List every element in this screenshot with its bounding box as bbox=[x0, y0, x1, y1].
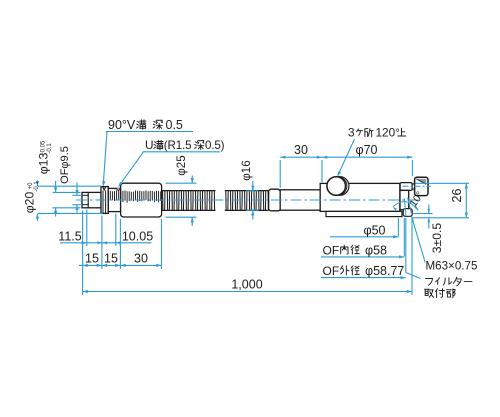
angle arc arrows bbox=[392, 206, 397, 211]
ext line sleeve right bbox=[161, 219, 163, 269]
ext line phi13 top bbox=[53, 191, 81, 193]
tube end cap bbox=[269, 189, 281, 211]
barrel under-plate bbox=[326, 211, 402, 216]
tip chamfer edge bbox=[87, 192, 89, 207]
neck section bbox=[108, 188, 120, 211]
collar inner edge bbox=[102, 191, 104, 214]
arrows phi70 bbox=[322, 156, 327, 159]
dim line row1 bbox=[60, 242, 152, 244]
leader U groove bbox=[119, 152, 144, 187]
svg-text:φ70: φ70 bbox=[355, 143, 377, 157]
leader 90V groove bbox=[103, 132, 107, 186]
label underline U groove bbox=[143, 151, 221, 153]
svg-text:φ58: φ58 bbox=[365, 243, 387, 257]
dim phi13 arrows bbox=[54, 187, 57, 192]
svg-text:OFφ9.5: OFφ9.5 bbox=[59, 146, 71, 184]
arrows 15b bbox=[102, 264, 107, 267]
filter holder top cap bbox=[400, 183, 412, 191]
dim line 26 bbox=[465, 183, 467, 218]
ext line overall right bbox=[411, 218, 413, 295]
filter mount lug bbox=[403, 209, 412, 217]
callout phi50 line bbox=[330, 236, 398, 238]
main center line bbox=[76, 199, 420, 201]
svg-text:15: 15 bbox=[85, 251, 99, 265]
dim phi16 arrows bbox=[251, 186, 254, 191]
dim line row2 bbox=[79, 264, 162, 266]
leader filter mount bbox=[406, 273, 421, 279]
arrows 30 top bbox=[280, 156, 285, 159]
ext line phi13 bottom bbox=[53, 207, 81, 209]
filter holder body bbox=[400, 190, 409, 209]
ext line barrel left bbox=[321, 160, 323, 182]
fiber core top edge (phi9.5) bbox=[82, 194, 88, 196]
svg-text:0.5: 0.5 bbox=[166, 118, 183, 132]
ext line tip left edge bbox=[82, 211, 84, 296]
left ferrule tip (phi13) bbox=[82, 192, 101, 207]
dim phi25 arrows bbox=[191, 178, 194, 183]
ext line 30 left bbox=[279, 160, 281, 188]
dim phi13 line bbox=[55, 181, 57, 192]
svg-text:1,000: 1,000 bbox=[231, 277, 262, 291]
arrows 1000 bbox=[83, 290, 88, 293]
ext line phi25 bottom bbox=[166, 216, 197, 218]
V-groove 90deg on collar bbox=[103, 187, 106, 190]
arrows 30b bbox=[120, 264, 125, 267]
leader M63 bbox=[412, 217, 426, 263]
svg-text:30: 30 bbox=[294, 143, 308, 157]
svg-text:-0.05: -0.05 bbox=[40, 140, 46, 154]
arrows 11.5 bbox=[82, 241, 87, 244]
dim line 1000 bbox=[83, 291, 412, 293]
ext line 26 bottom bbox=[412, 217, 470, 219]
ext line phi9.5 bottom bbox=[72, 204, 81, 206]
callout phi58.77 line bbox=[321, 277, 406, 279]
svg-text:φ20: φ20 bbox=[23, 192, 37, 214]
ext line phi58 bbox=[403, 218, 405, 256]
svg-text:OF: OF bbox=[323, 243, 340, 257]
svg-text:11.5: 11.5 bbox=[58, 229, 81, 243]
callout phi58 line bbox=[321, 256, 404, 258]
arrows 3 bbox=[428, 209, 431, 213]
svg-text:-0.1: -0.1 bbox=[47, 143, 53, 154]
svg-text:26: 26 bbox=[450, 189, 464, 203]
dim phi20 arrows bbox=[36, 181, 39, 186]
svg-text:M63×0.75: M63×0.75 bbox=[426, 260, 478, 273]
dim phi9.5 line bbox=[76, 183, 78, 196]
ext line phi20 top bbox=[38, 185, 101, 187]
ext line phi16 bottom bbox=[246, 209, 259, 211]
arrows 26 bbox=[465, 183, 468, 188]
svg-text:(R1.5: (R1.5 bbox=[164, 139, 192, 152]
svg-text:15: 15 bbox=[104, 251, 118, 265]
arrows 15a bbox=[83, 264, 88, 267]
svg-text:φ50: φ50 bbox=[363, 223, 385, 237]
ext line phi9.5 top bbox=[72, 194, 81, 196]
dim phi16 line bbox=[252, 181, 254, 191]
sleeve phi25 bbox=[121, 183, 162, 217]
label underline 90V bbox=[106, 131, 193, 133]
dim phi9.5 arrows bbox=[75, 190, 78, 195]
ext line sleeve left bbox=[119, 219, 121, 269]
svg-text:10.05: 10.05 bbox=[122, 229, 153, 243]
collar inner edge 2 bbox=[105, 191, 107, 214]
spring corrugation visible in sleeve window bbox=[110, 190, 160, 202]
dim phi25 line bbox=[191, 176, 193, 184]
thumbscrew axis line bbox=[403, 185, 432, 187]
svg-text:3±0.5: 3±0.5 bbox=[430, 223, 444, 254]
lamp house barrel bbox=[320, 183, 400, 211]
ext line 3 top bbox=[413, 213, 432, 215]
thumbscrew head bbox=[415, 177, 428, 195]
clamp knob front circle bbox=[327, 177, 346, 196]
ext line phi25 top bbox=[166, 182, 197, 184]
ext line phi58.77 and filter leader bbox=[405, 218, 407, 273]
leader knob 3 places bbox=[338, 139, 355, 176]
svg-text:φ58.77: φ58.77 bbox=[365, 264, 404, 278]
neck into lamp barrel bbox=[280, 190, 320, 210]
dim phi20 line bbox=[36, 180, 38, 186]
svg-text:0.5): 0.5) bbox=[205, 139, 225, 152]
svg-text:30: 30 bbox=[134, 251, 148, 265]
label mount part kanji bbox=[425, 289, 434, 297]
svg-text:φ25: φ25 bbox=[175, 155, 188, 175]
dim 3 line bbox=[428, 205, 430, 214]
svg-text:3: 3 bbox=[348, 126, 355, 140]
collar phi20 bbox=[101, 187, 108, 214]
flexible corrugated tube segment 2 (phi16) bbox=[225, 190, 269, 192]
thumbscrew shading bbox=[416, 179, 426, 184]
ext line phi50 bbox=[397, 218, 399, 236]
svg-text:-0.1: -0.1 bbox=[34, 181, 40, 192]
ext line phi16 top bbox=[246, 190, 259, 192]
thumbscrew stem bbox=[412, 184, 415, 189]
ext line phi20 bottom bbox=[38, 212, 103, 214]
svg-text:φ16: φ16 bbox=[240, 160, 253, 180]
svg-text:90°V: 90°V bbox=[108, 118, 136, 132]
ext line 26 top bbox=[415, 182, 469, 184]
svg-text:U: U bbox=[145, 138, 154, 152]
angle ray 1 bbox=[404, 198, 406, 216]
flange divider bbox=[399, 183, 401, 211]
arrows 10.05 bbox=[97, 241, 102, 244]
fiber core bottom edge bbox=[82, 204, 88, 206]
svg-text:OF: OF bbox=[323, 264, 340, 278]
lug join line bbox=[400, 209, 403, 211]
clamp knob mid arc bbox=[329, 177, 347, 196]
angle 10deg arc bbox=[393, 202, 418, 211]
ext line neck right bbox=[115, 214, 117, 247]
clamp knob rear ellipse bbox=[332, 177, 349, 196]
flexible corrugated tube segment 1 bbox=[162, 190, 216, 192]
ext line V-groove bbox=[86, 210, 88, 247]
svg-text:120°: 120° bbox=[376, 126, 401, 140]
U-groove R1.5 bbox=[117, 188, 120, 190]
ext line collar left bbox=[101, 216, 103, 270]
ext line phi70 right bbox=[411, 160, 413, 176]
dim line 30 and phi70 top bbox=[280, 156, 412, 158]
label filter katakana bbox=[426, 279, 433, 286]
angle ray 2 bbox=[408, 198, 412, 213]
svg-text:φ13: φ13 bbox=[37, 153, 51, 175]
thumbscrew shading edge bbox=[416, 179, 426, 184]
